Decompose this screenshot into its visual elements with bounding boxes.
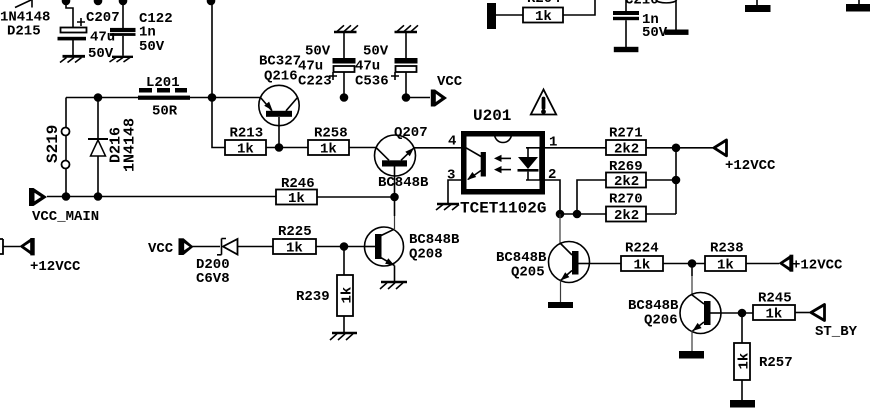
warning triangle bbox=[531, 90, 556, 115]
svg-text:R224: R224 bbox=[625, 241, 659, 257]
resistor R239 bbox=[296, 275, 356, 316]
svg-text:Q206: Q206 bbox=[644, 313, 678, 329]
wire pin2 node down to Q205 bbox=[559, 214, 561, 244]
svg-text:R271: R271 bbox=[609, 126, 643, 142]
resistor R269 bbox=[606, 159, 646, 190]
resistor R257 bbox=[734, 343, 793, 380]
svg-text:1N4148: 1N4148 bbox=[122, 118, 139, 172]
svg-text:R238: R238 bbox=[710, 241, 744, 257]
svg-text:50V: 50V bbox=[363, 44, 389, 60]
node bbox=[94, 192, 103, 201]
ground bar bbox=[614, 47, 639, 52]
svg-text:1k: 1k bbox=[237, 142, 254, 158]
resistor R204 bbox=[523, 0, 563, 25]
resistor R270 bbox=[606, 192, 646, 225]
svg-text:1k: 1k bbox=[717, 258, 734, 274]
port VCC_MAIN bbox=[29, 188, 99, 225]
resistor R213 bbox=[225, 126, 266, 158]
node bbox=[340, 242, 349, 251]
switch S219 bbox=[44, 98, 70, 197]
node bbox=[688, 259, 697, 268]
svg-text:R246: R246 bbox=[281, 176, 315, 192]
ground bbox=[60, 56, 85, 62]
ground bar top right 2 bbox=[846, 0, 870, 12]
capacitor C536 bbox=[355, 44, 418, 98]
wire node to Q206 bbox=[691, 264, 693, 277]
resistor R225 bbox=[273, 224, 316, 257]
resistor R271 bbox=[606, 126, 646, 158]
node top B bbox=[94, 0, 103, 5]
wire VCC_MAIN rail bbox=[47, 196, 276, 198]
optocoupler U201 bbox=[460, 107, 546, 218]
wire bbox=[190, 97, 261, 99]
zener D200 bbox=[196, 239, 273, 288]
resistor R258 bbox=[308, 126, 349, 158]
svg-text:R239: R239 bbox=[296, 289, 330, 305]
node bbox=[556, 210, 565, 219]
svg-text:50V: 50V bbox=[88, 46, 114, 62]
transistor Q216 bbox=[259, 54, 301, 148]
port +12VCC mid bbox=[714, 140, 776, 174]
wire bbox=[122, 1, 124, 28]
svg-text:ST_BY: ST_BY bbox=[815, 324, 858, 340]
node bbox=[275, 143, 284, 152]
node bbox=[738, 309, 747, 318]
svg-text:R258: R258 bbox=[314, 126, 348, 142]
wire vertical 676 bbox=[675, 148, 677, 214]
svg-text:1k: 1k bbox=[340, 287, 356, 304]
resistor R245 bbox=[753, 291, 795, 323]
wire bbox=[646, 179, 676, 181]
node bbox=[62, 192, 71, 201]
wire pin3 bbox=[448, 180, 462, 203]
node bbox=[340, 93, 349, 102]
ground bar bbox=[679, 351, 704, 359]
wire bbox=[663, 263, 705, 265]
svg-text:50R: 50R bbox=[152, 104, 178, 120]
wire bbox=[394, 197, 396, 216]
ground bbox=[436, 204, 459, 210]
wire bbox=[66, 1, 73, 27]
wire bbox=[406, 97, 430, 99]
svg-text:VCC: VCC bbox=[437, 74, 463, 90]
wire bbox=[317, 196, 395, 198]
svg-text:R213: R213 bbox=[230, 126, 264, 142]
transistor Q207 bbox=[375, 125, 430, 197]
svg-text:Q216: Q216 bbox=[264, 69, 298, 85]
resistor R224 bbox=[621, 241, 663, 274]
wire bbox=[414, 147, 464, 149]
node bbox=[208, 93, 217, 102]
svg-text:50V: 50V bbox=[642, 25, 668, 41]
svg-text:1k: 1k bbox=[737, 353, 753, 370]
ground bar bbox=[665, 30, 689, 35]
bus stub top right bbox=[487, 3, 496, 29]
wire bbox=[721, 312, 753, 314]
svg-text:+12VCC: +12VCC bbox=[30, 259, 81, 275]
svg-text:S219: S219 bbox=[44, 125, 62, 163]
svg-text:TCET1102G: TCET1102G bbox=[460, 200, 546, 218]
node top D bbox=[207, 0, 216, 5]
wire bbox=[746, 263, 779, 265]
svg-text:R270: R270 bbox=[609, 192, 643, 208]
port +12VCC bottom left bbox=[0, 238, 81, 275]
wire bbox=[577, 213, 606, 215]
wire bbox=[563, 0, 595, 15]
svg-text:C207: C207 bbox=[86, 10, 120, 26]
node top C bbox=[119, 0, 128, 5]
svg-text:C210: C210 bbox=[625, 0, 659, 9]
svg-text:VCC_MAIN: VCC_MAIN bbox=[32, 209, 99, 225]
svg-text:2k2: 2k2 bbox=[614, 174, 639, 190]
transistor Q208 bbox=[365, 227, 461, 281]
svg-text:4: 4 bbox=[448, 134, 456, 150]
transistor Q206 bbox=[628, 293, 721, 352]
resistor R238 bbox=[705, 241, 746, 274]
wire bbox=[646, 213, 676, 215]
wire pin2 bbox=[544, 180, 560, 214]
ground bar bbox=[548, 302, 573, 308]
wire bbox=[741, 313, 743, 343]
wire pin1 to R271 bbox=[544, 147, 606, 149]
svg-text:1k: 1k bbox=[286, 241, 303, 257]
connector bubble top bbox=[656, 0, 677, 30]
wire bbox=[316, 246, 365, 248]
svg-text:R245: R245 bbox=[758, 291, 792, 307]
capacitor C223 bbox=[298, 44, 356, 98]
svg-text:+12VCC: +12VCC bbox=[792, 258, 843, 274]
node bbox=[94, 93, 103, 102]
ground bbox=[380, 282, 407, 289]
svg-text:R269: R269 bbox=[609, 159, 643, 175]
svg-text:R257: R257 bbox=[759, 355, 793, 371]
svg-text:47u: 47u bbox=[298, 59, 323, 75]
svg-text:U201: U201 bbox=[473, 107, 511, 125]
wire bbox=[590, 263, 622, 265]
transistor Q205 bbox=[496, 242, 590, 303]
port ST_BY bbox=[811, 305, 858, 341]
resistor R246 bbox=[276, 176, 317, 207]
svg-text:1k: 1k bbox=[766, 307, 783, 323]
port +12VCC right bbox=[779, 255, 844, 274]
svg-text:VCC: VCC bbox=[148, 241, 174, 257]
wire main VCC_MAIN top rail bbox=[66, 97, 138, 99]
svg-text:50V: 50V bbox=[305, 44, 331, 60]
wire bbox=[577, 180, 606, 214]
wire bbox=[349, 147, 376, 149]
wire bbox=[212, 0, 225, 148]
wire bbox=[496, 14, 523, 16]
svg-text:BC848B: BC848B bbox=[378, 175, 429, 191]
wire bbox=[192, 246, 220, 248]
svg-text:Q205: Q205 bbox=[511, 265, 545, 281]
svg-text:1k: 1k bbox=[288, 191, 305, 207]
node top A bbox=[62, 0, 71, 5]
node bbox=[672, 144, 681, 153]
svg-text:D215: D215 bbox=[7, 24, 41, 40]
svg-text:+12VCC: +12VCC bbox=[725, 158, 776, 174]
ground bar top right 1 bbox=[745, 0, 771, 12]
diode D216 bbox=[88, 98, 139, 197]
wire bbox=[646, 147, 714, 149]
inductor L201 bbox=[138, 75, 190, 120]
node bbox=[573, 210, 582, 219]
svg-text:R204: R204 bbox=[527, 0, 561, 7]
diode D215 bbox=[0, 0, 50, 40]
wire bbox=[343, 316, 345, 332]
wire bbox=[560, 213, 577, 215]
svg-text:47u: 47u bbox=[355, 59, 380, 75]
svg-text:BC327: BC327 bbox=[259, 54, 301, 70]
ground bar bbox=[730, 400, 755, 408]
svg-text:50V: 50V bbox=[139, 39, 165, 55]
port VCC (D200 row) bbox=[148, 238, 194, 257]
wire bbox=[343, 247, 345, 276]
node bbox=[390, 193, 399, 202]
wire bbox=[795, 312, 811, 314]
svg-text:C6V8: C6V8 bbox=[196, 271, 230, 287]
svg-text:Q207: Q207 bbox=[394, 125, 428, 141]
port VCC top bbox=[431, 74, 463, 107]
svg-text:C536: C536 bbox=[355, 74, 389, 90]
capacitor C210 bbox=[613, 0, 668, 47]
ground bbox=[330, 333, 357, 340]
ground inverted above C536 bbox=[395, 25, 419, 58]
svg-text:1k: 1k bbox=[535, 9, 552, 25]
node bbox=[402, 93, 411, 102]
wire bbox=[741, 380, 743, 400]
node bbox=[672, 176, 681, 185]
svg-text:R225: R225 bbox=[278, 224, 312, 240]
svg-text:Q208: Q208 bbox=[409, 247, 443, 263]
ground inverted above C223 bbox=[334, 25, 358, 58]
ground bbox=[110, 57, 134, 62]
capacitor C122 bbox=[110, 11, 173, 56]
svg-text:1k: 1k bbox=[320, 142, 337, 158]
svg-text:C223: C223 bbox=[298, 74, 332, 90]
svg-text:1k: 1k bbox=[634, 258, 651, 274]
svg-text:2k2: 2k2 bbox=[614, 142, 639, 158]
svg-text:2k2: 2k2 bbox=[614, 208, 639, 224]
wire bbox=[266, 147, 308, 149]
svg-text:L201: L201 bbox=[146, 75, 180, 91]
capacitor C207 bbox=[58, 10, 120, 62]
